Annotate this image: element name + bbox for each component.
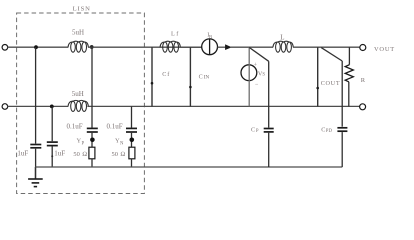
svg-text:VOUT: VOUT <box>374 46 395 53</box>
terminal T4 (VOUT bottom) <box>360 104 366 110</box>
capacitor Cp plates <box>264 128 274 130</box>
capacitor 0.1uF#1 plates <box>87 127 98 129</box>
capacitor 1uF#1 plates <box>30 144 41 146</box>
svg-text:Ω: Ω <box>82 151 87 158</box>
arrow (current direction) <box>225 45 231 50</box>
wire: diagonal to Cpd branch <box>321 48 342 61</box>
wire below Cpd to ground rail <box>341 132 343 167</box>
wire: top rail T1 to 5uH#1 <box>8 46 69 48</box>
wire: diagonal to Cp branch <box>249 47 269 61</box>
svg-text:R: R <box>361 77 366 84</box>
wire: top rail 5uH#1 to Ib source <box>88 46 202 48</box>
inductor 5uH#1 <box>68 41 88 52</box>
svg-text:S: S <box>262 73 265 78</box>
svg-text:C: C <box>321 127 325 134</box>
wire: top rail Lf to CIN area <box>180 46 202 48</box>
node dot on mid rail at 1uF#2 branch <box>50 105 54 109</box>
voltage source Vs circle <box>241 65 257 81</box>
wire: mid rail T2 to 5uH#2 <box>8 105 69 107</box>
svg-text:N: N <box>120 141 124 146</box>
svg-text:+: + <box>254 62 258 68</box>
svg-text:0.1uF: 0.1uF <box>107 123 123 131</box>
terminal T2 (input neutral, left) <box>2 104 8 110</box>
svg-text:C: C <box>162 71 166 78</box>
ground symbol <box>28 179 43 187</box>
LISN dashed box <box>17 13 145 194</box>
ground wire stub <box>34 167 36 179</box>
svg-text:5uH: 5uH <box>72 90 84 98</box>
svg-text:5uH: 5uH <box>72 29 84 37</box>
capacitor 1uF#1 branch wire (top rail to ground) <box>35 47 37 143</box>
wire below 0.1uF#2 <box>131 133 133 147</box>
svg-text:50: 50 <box>73 151 79 158</box>
resistor 50ohm#1 (box) <box>89 147 95 159</box>
node dot on top rail at 1uF branch <box>34 45 38 49</box>
inductor Lf <box>160 41 180 52</box>
capacitor 1uF#2 branch wire (mid rail to bottom rail) <box>51 106 53 141</box>
svg-text:LISN: LISN <box>73 6 91 13</box>
capacitor Cf (vertical line with mid dot) <box>151 47 153 106</box>
terminal T3 (VOUT top) <box>360 45 366 51</box>
capacitor 0.1uF#1 branch wire (from top rail node, crosses mid rail) <box>91 47 93 128</box>
svg-text:PD: PD <box>326 129 333 134</box>
terminal T1 (input line, top-left) <box>2 45 8 51</box>
wire: Vs branch vertical <box>248 47 250 106</box>
svg-text:L: L <box>280 34 284 42</box>
svg-text:1uF: 1uF <box>54 149 65 157</box>
svg-text:L: L <box>171 30 175 37</box>
resistor 50ohm#2 (box) <box>129 147 135 159</box>
wire below 0.1uF#1 <box>91 133 93 147</box>
capacitor 1uF#2 plates <box>47 141 58 143</box>
wire: bottom ground rail <box>35 166 342 168</box>
svg-text:P: P <box>256 129 259 134</box>
wire below 50ohm#2 <box>131 159 133 168</box>
svg-text:f: f <box>167 71 170 78</box>
node dot after 5uH#1 <box>90 45 94 49</box>
capacitor COUT (vertical line with mid dot) <box>317 47 319 106</box>
capacitor CIN (vertical line with mid dot) <box>189 47 191 106</box>
wire: mid rail from 5uH#2 to T4 <box>87 105 359 107</box>
wire: Cp branch vertical (crosses mid rail) <box>268 61 270 127</box>
svg-text:COUT: COUT <box>321 80 341 87</box>
wire below 50ohm#1 <box>91 159 93 168</box>
capacitor 0.1uF#2 plates <box>126 127 137 129</box>
svg-text:f: f <box>176 30 179 37</box>
resistor R leads <box>348 47 350 64</box>
node dot Yn test point <box>130 138 135 143</box>
wire: top rail Ib to arrow <box>218 46 226 48</box>
svg-text:Ω: Ω <box>120 151 125 158</box>
svg-text:B: B <box>209 36 212 41</box>
wire: top rail arrow to L <box>230 46 273 48</box>
svg-text:50: 50 <box>112 151 118 158</box>
svg-text:−: − <box>255 82 259 88</box>
svg-text:P: P <box>82 141 85 146</box>
capacitor Cpd plates <box>337 127 347 129</box>
wire: top rail L to T3 <box>293 46 360 48</box>
svg-text:C: C <box>199 73 203 80</box>
inductor L <box>273 41 293 52</box>
svg-text:1uF: 1uF <box>17 150 28 158</box>
resistor R zigzag <box>345 65 353 82</box>
svg-text:C: C <box>251 127 255 134</box>
wire below Cp to ground rail <box>268 133 270 167</box>
capacitor 0.1uF#2 branch wire (from mid rail) <box>131 106 133 127</box>
svg-text:0.1uF: 0.1uF <box>67 123 83 131</box>
svg-text:IN: IN <box>204 74 210 80</box>
current source Ib (circle with vertical bar) <box>202 39 218 55</box>
wire: Cpd branch vertical (crosses mid rail) <box>341 61 343 127</box>
node dot Yp test point <box>90 138 95 143</box>
inductor 5uH#2 <box>68 100 88 111</box>
